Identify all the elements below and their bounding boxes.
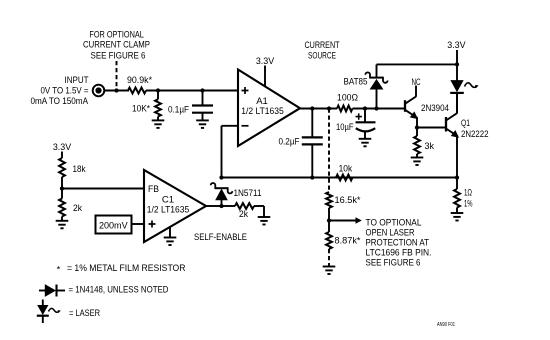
transistor Q1 2N2222 (446, 93, 489, 178)
resistor 1R 1% (454, 178, 473, 214)
node: input junction (114, 88, 118, 92)
svg-text:*: * (57, 264, 61, 275)
svg-text:0V TO 1.5V =: 0V TO 1.5V = (41, 86, 89, 97)
resistor 8.87k* (326, 221, 361, 249)
op-amp C1 1/2 LT1635 (144, 170, 206, 242)
node BAT85 bottom (374, 106, 378, 110)
wire A1 output row (300, 108, 337, 110)
svg-text:8.87k*: 8.87k* (335, 236, 361, 247)
svg-text:3.3V: 3.3V (256, 56, 275, 67)
node C1 output (219, 204, 223, 208)
svg-text:SELF-ENABLE: SELF-ENABLE (194, 232, 247, 243)
resistor 100R (337, 92, 358, 111)
ground (3k) (411, 158, 424, 166)
laser diode (450, 64, 477, 113)
ground (2k self-enable) (258, 217, 271, 225)
svg-text:90.9k*: 90.9k* (127, 75, 152, 86)
svg-text:1/2 LT1635: 1/2 LT1635 (241, 106, 284, 117)
resistor 18k (59, 158, 86, 189)
capacitor 10uF polarized (336, 109, 376, 139)
node FB divider (60, 186, 64, 190)
svg-text:NC: NC (412, 77, 421, 88)
node bus 0.2uF (310, 175, 314, 179)
legend laser (37, 300, 100, 324)
input terminal (93, 85, 105, 97)
supply 3.3V left (53, 142, 72, 158)
svg-text:= LASER: = LASER (69, 308, 100, 319)
node current sense (455, 175, 459, 179)
svg-text:3.3V: 3.3V (447, 40, 466, 51)
node divider tap (327, 218, 331, 222)
op-amp A1 1/2 LT1635 (238, 70, 300, 147)
svg-text:= 1N4148, UNLESS NOTED: = 1N4148, UNLESS NOTED (69, 284, 169, 295)
ground (10uF) (359, 139, 372, 147)
note: open laser protection (366, 217, 432, 268)
wire (353, 108, 406, 110)
node dashed tap (327, 106, 331, 110)
node 0.2uF top (310, 106, 314, 110)
svg-text:CURRENT CLAMP: CURRENT CLAMP (83, 40, 150, 51)
resistor 10K* (132, 91, 161, 121)
capacitor 0.2uF (279, 109, 323, 178)
svg-text:10K*: 10K* (132, 103, 150, 114)
resistor 10k (336, 163, 353, 180)
svg-text:200mV: 200mV (99, 220, 128, 231)
input label (31, 75, 89, 107)
dashed wire optional divider top (328, 109, 330, 193)
wire feedback bus (222, 177, 458, 179)
svg-text:SEE FIGURE 6: SEE FIGURE 6 (366, 257, 421, 268)
ground (1R) (451, 213, 464, 221)
wire to Q1 base (417, 127, 446, 129)
node bus left (219, 175, 223, 179)
wire (146, 90, 238, 92)
svg-text:16.5k*: 16.5k* (335, 195, 361, 206)
node at 0.1uF top (200, 88, 204, 92)
svg-text:1N5711: 1N5711 (234, 188, 262, 199)
svg-text:INPUT: INPUT (65, 75, 89, 86)
node laser top (455, 62, 459, 66)
legend diode 1N4148 (39, 284, 169, 296)
label current source (305, 40, 340, 61)
resistor 2k (self-enable) (222, 203, 265, 220)
svg-text:2N3904: 2N3904 (421, 103, 449, 114)
diode BAT85 schottky (344, 64, 388, 108)
arrow to protection note (329, 217, 362, 224)
diode 1N5711 schottky (211, 183, 262, 206)
ground (0.1uF) (196, 120, 209, 128)
svg-text:3.3V: 3.3V (53, 142, 72, 153)
ground (10K) (152, 120, 165, 128)
svg-text:0mA TO 150mA: 0mA TO 150mA (31, 96, 89, 107)
svg-text:10µF: 10µF (336, 122, 354, 133)
ground (2k divider) (56, 221, 69, 229)
svg-text:100Ω: 100Ω (337, 92, 358, 103)
note: optional current clamp (83, 29, 150, 61)
wire top rail to laser (377, 63, 458, 65)
svg-text:AN90 F01: AN90 F01 (437, 322, 455, 328)
dashed wire to current clamp (116, 61, 118, 91)
wire FB (62, 188, 144, 190)
svg-text:SEE FIGURE 6: SEE FIGURE 6 (91, 50, 146, 61)
resistor 90.9k* (127, 75, 152, 94)
node at 10K top (156, 88, 160, 92)
ground (C1) (164, 238, 177, 246)
svg-text:10k: 10k (339, 163, 353, 174)
dashed wire optional divider bottom (328, 249, 330, 267)
resistor 3k (414, 128, 434, 158)
supply 3.3V right (447, 40, 466, 65)
ground (8.87k) (323, 267, 336, 275)
A1 supply 3.3V (256, 56, 275, 87)
wire C1 output (206, 205, 222, 207)
svg-text:1%: 1% (464, 198, 473, 209)
svg-text:FB: FB (148, 184, 159, 195)
ground C1 vminus (169, 227, 171, 238)
svg-text:2k: 2k (73, 203, 82, 214)
svg-text:2N2222: 2N2222 (461, 129, 489, 140)
source 200mV (96, 216, 145, 234)
node 2N3904 emitter (415, 125, 419, 129)
svg-text:0.1µF: 0.1µF (168, 104, 189, 115)
legend 1% note (57, 263, 186, 275)
svg-text:3k: 3k (425, 141, 435, 152)
node 10uF top (363, 106, 367, 110)
svg-text:0.2µF: 0.2µF (279, 136, 300, 147)
svg-text:1Ω: 1Ω (464, 187, 472, 198)
svg-text:= 1% METAL FILM RESISTOR: = 1% METAL FILM RESISTOR (67, 263, 186, 274)
wire input to junction (105, 90, 129, 92)
svg-text:2k: 2k (239, 209, 248, 220)
resistor 16.5k* (326, 192, 361, 221)
svg-text:SOURCE: SOURCE (308, 50, 336, 61)
transistor 2N3904 (405, 77, 449, 128)
svg-text:BAT85: BAT85 (344, 76, 368, 87)
svg-text:Q1: Q1 (461, 118, 470, 129)
svg-text:18k: 18k (73, 164, 86, 175)
svg-text:1/2 LT1635: 1/2 LT1635 (147, 204, 190, 215)
resistor 2k (divider) (59, 189, 82, 221)
capacitor 0.1uF (168, 91, 213, 121)
wire A1 inverting input (222, 126, 239, 178)
